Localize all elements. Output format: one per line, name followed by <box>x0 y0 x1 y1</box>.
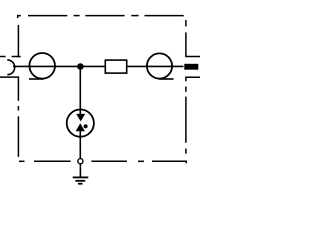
output terminal blade (right, solid black) <box>184 64 198 70</box>
gas discharge tube F1: circle <box>67 110 94 137</box>
resistor (decoupling impedance) <box>105 60 126 73</box>
gas discharge tube F1: gas-filled indicator dot <box>84 124 88 128</box>
contact circle right tail <box>159 78 174 80</box>
contact circle right (plug-in contact) <box>147 53 172 78</box>
wire: main horizontal line <box>13 65 184 67</box>
junction node <box>77 63 84 70</box>
earth terminal node (open circle on border) <box>78 159 83 164</box>
gas discharge tube F1: upper electrode arrow <box>76 114 85 122</box>
wire: vertical branch upper <box>79 66 81 114</box>
ground symbol <box>73 177 89 183</box>
input terminal female contact arc (left) <box>7 60 14 75</box>
contact circle left tail <box>29 78 44 80</box>
enclosure border, bottom edge (dash-dot) <box>19 161 186 163</box>
wire: vertical branch lower <box>79 131 81 158</box>
wire: stub to ground <box>79 164 81 176</box>
contact circle left (plug-in contact) <box>29 53 55 79</box>
enclosure border, left edge upper (dash-dot) <box>0 25 21 57</box>
gas discharge tube F1: lower electrode arrow <box>76 123 85 131</box>
enclosure border, right edge with terminal notch (dash-dot) <box>186 20 200 154</box>
enclosure border, top edge (dash-dot) <box>18 16 184 18</box>
enclosure border, left edge lower with terminal notch (dash-dot) <box>0 77 18 157</box>
